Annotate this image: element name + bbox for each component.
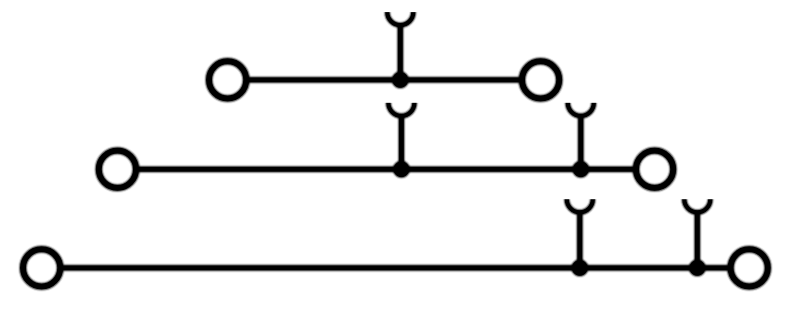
soft halo layers bbox=[62, 80, 729, 268]
solid core layers bbox=[62, 80, 729, 268]
